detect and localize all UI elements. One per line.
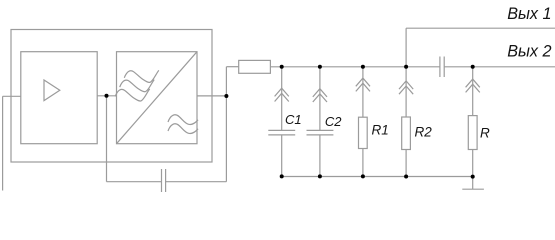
wire Vyh1 line	[406, 27, 555, 29]
svg-text:R2: R2	[415, 125, 433, 140]
wire C1 branch lower	[281, 135, 283, 177]
bus wire Vyh2 right part	[444, 66, 555, 68]
bottom junction dot C1	[280, 174, 284, 178]
node B junction dot	[224, 94, 228, 98]
bus junction dot R	[471, 65, 475, 69]
wire R2 branch lower	[405, 150, 407, 177]
arrow chevrons C1	[275, 88, 289, 101]
bottom junction dot R1	[361, 174, 365, 178]
node A junction dot	[105, 94, 109, 98]
resistor R	[468, 116, 477, 150]
arrow chevrons R	[466, 79, 480, 92]
wire R branch lower	[472, 150, 474, 177]
wire node A down	[106, 96, 108, 182]
wire C2 branch lower	[319, 135, 321, 177]
svg-text:C1: C1	[285, 112, 302, 127]
op-amp U1 box	[21, 52, 97, 144]
svg-text:Вых 2: Вых 2	[507, 42, 551, 60]
bottom bus wire	[282, 176, 473, 178]
wire R2 branch upper	[405, 67, 407, 117]
resistor R2	[402, 117, 411, 150]
wire R1 branch upper	[362, 67, 364, 117]
wire node B vertical	[225, 67, 227, 182]
bus wire Vyh2 left part	[270, 66, 440, 68]
ground	[462, 188, 484, 190]
feedback wire bottom left segment	[107, 181, 162, 183]
bus junction dot R1	[361, 65, 365, 69]
wire corner to series resistor	[226, 66, 238, 68]
bus junction dot C1	[280, 65, 284, 69]
capacitor C3 (feedback) plates	[161, 169, 163, 192]
capacitor C2 plates	[307, 129, 334, 131]
resistor R1	[359, 117, 368, 148]
capacitor C1 plates	[268, 129, 295, 131]
wire to ground	[472, 177, 474, 190]
wire converter output	[197, 95, 226, 97]
svg-text:C2: C2	[325, 114, 342, 129]
svg-text:Вых 1: Вых 1	[507, 5, 551, 23]
capacitor C4 series output plates	[439, 57, 441, 78]
wire R branch upper	[472, 67, 474, 116]
converter U2 diagonal	[117, 52, 198, 144]
svg-text:R1: R1	[372, 123, 389, 138]
wire C2 branch upper	[319, 67, 321, 131]
op-amp U1 triangle	[44, 80, 60, 101]
arrow chevrons C2	[313, 89, 327, 102]
converter U2 box	[117, 52, 198, 144]
bottom junction dot C2	[318, 174, 322, 178]
wire C1 branch upper	[281, 67, 283, 131]
feedback wire bottom right segment	[166, 181, 227, 183]
resistor R0 series horizontal	[239, 60, 271, 73]
converter output waves	[168, 115, 198, 125]
bus junction dot R2	[404, 65, 408, 69]
wire input to amplifier	[3, 95, 21, 97]
arrow chevrons R2	[399, 81, 413, 94]
bottom junction dot R / ground node	[471, 175, 475, 179]
wire Vyh1 tap vertical	[405, 28, 407, 67]
wire amplifier to converter	[97, 95, 116, 97]
arrow chevrons R1	[356, 78, 370, 91]
wire input left vertical	[2, 96, 4, 190]
converter input waves	[124, 70, 159, 82]
svg-text:R: R	[480, 125, 490, 140]
block outer box (device boundary)	[11, 30, 212, 163]
wire R1 branch lower	[362, 149, 364, 177]
bus junction dot C2	[318, 65, 322, 69]
bottom junction dot R2	[404, 175, 408, 179]
